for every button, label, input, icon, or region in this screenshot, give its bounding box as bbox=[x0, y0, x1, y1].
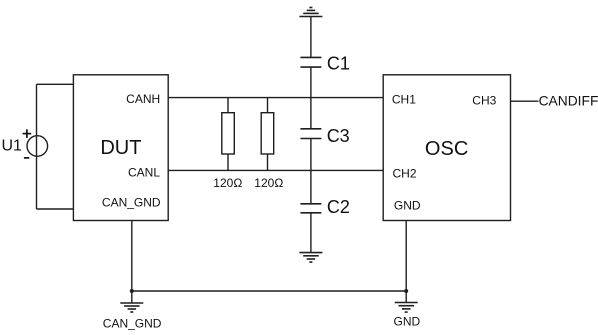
svg-text:120Ω: 120Ω bbox=[213, 176, 242, 190]
svg-text:CH2: CH2 bbox=[393, 166, 417, 180]
svg-text:DUT: DUT bbox=[100, 137, 141, 159]
svg-text:U1: U1 bbox=[2, 137, 23, 154]
svg-text:120Ω: 120Ω bbox=[254, 176, 283, 190]
svg-text:C3: C3 bbox=[327, 126, 350, 146]
svg-text:GND: GND bbox=[394, 314, 421, 328]
svg-text:CANH: CANH bbox=[126, 92, 160, 106]
svg-text:CAN_GND: CAN_GND bbox=[102, 195, 161, 209]
svg-text:C2: C2 bbox=[327, 197, 350, 217]
svg-text:OSC: OSC bbox=[425, 138, 468, 160]
svg-text:GND: GND bbox=[394, 198, 421, 212]
svg-text:CAN_GND: CAN_GND bbox=[103, 317, 162, 331]
svg-text:C1: C1 bbox=[327, 53, 350, 73]
svg-text:CANDIFF: CANDIFF bbox=[539, 94, 598, 109]
svg-text:CH1: CH1 bbox=[392, 93, 416, 107]
svg-text:CANL: CANL bbox=[128, 166, 160, 180]
svg-text:CH3: CH3 bbox=[472, 93, 496, 107]
